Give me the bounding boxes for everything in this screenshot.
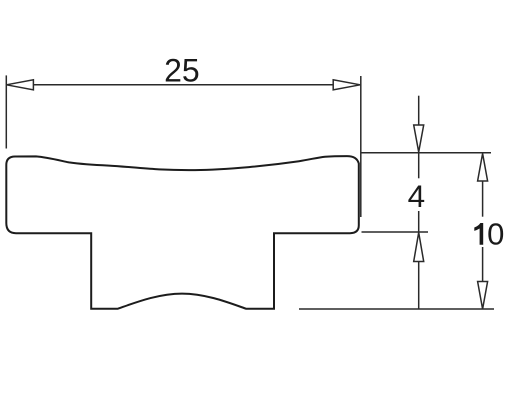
4 top arrow (down)	[414, 125, 424, 152]
svg-text:0: 0	[487, 217, 504, 252]
part outline (T-shaped knob cross-section)	[6, 156, 359, 309]
wire: 25 right extension line	[360, 76, 362, 217]
wire: 25 dimension line	[33, 84, 333, 86]
4 bottom arrow (up)	[414, 233, 424, 262]
wire: lower extension line of 4	[362, 231, 429, 233]
wire: 4 upper leader	[418, 96, 420, 125]
wire: 4 line below top arrow	[418, 152, 420, 178]
wire: 10 dimension line lower segment	[482, 247, 484, 282]
wire: bottom extension line	[299, 308, 494, 310]
wire: 10 dimension line upper segment	[482, 181, 484, 217]
svg-text:25: 25	[164, 52, 200, 88]
10 bottom arrow (down)	[478, 282, 488, 310]
label 10	[474, 217, 504, 252]
wire: 4 line above bottom arrow	[418, 211, 420, 233]
wire: top extension line (shared by 4 and 10)	[361, 152, 491, 154]
25 left arrow	[6, 80, 33, 90]
wire: 25 left extension line	[5, 75, 7, 148]
25 right arrow	[333, 80, 360, 90]
10 top arrow (up)	[478, 154, 488, 182]
wire: 4 lower leader	[418, 262, 420, 310]
svg-text:4: 4	[408, 178, 426, 214]
